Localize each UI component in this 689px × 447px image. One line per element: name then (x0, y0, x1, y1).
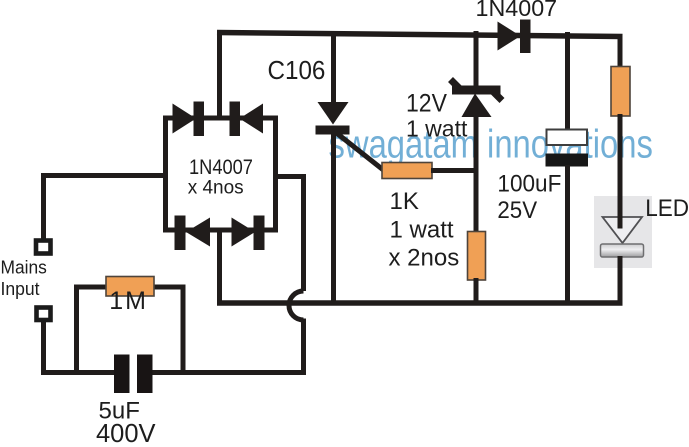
diode D1 1N4007 triangle (498, 22, 521, 51)
wire 1K to zener node (431, 168, 478, 173)
capacitor C2 100uF bottom plate (546, 154, 589, 167)
resistor R2 1K vertical (468, 232, 486, 281)
wire hop bottom to cap right plate (152, 319, 304, 373)
wire zener anode down (474, 116, 479, 233)
wire right corner down to R3 (618, 34, 623, 68)
svg-text:25V: 25V (497, 196, 537, 223)
LED triangle (603, 217, 643, 243)
wire bridge bottom stem (217, 229, 222, 305)
wire DC+ top rail (217, 33, 623, 37)
resistor R4 1M horizontal (106, 277, 154, 297)
mains terminal bottom (37, 308, 51, 321)
thyristor C106 triangle (318, 102, 349, 125)
svg-text:12V: 12V (406, 90, 447, 118)
bridge diode top-right (230, 102, 264, 137)
svg-text:1 watt: 1 watt (406, 116, 468, 142)
resistor R3 vertical (611, 67, 630, 117)
bridge diode bottom-right (232, 216, 265, 251)
wire AC right: bridge to hop (273, 177, 304, 292)
svg-text:x 4nos: x 4nos (188, 178, 244, 199)
zener diode 12V cathode bar (451, 80, 503, 101)
wire 1M loop right (153, 287, 183, 375)
capacitor C1 5uF right plate (137, 355, 153, 394)
wire DC- bottom rail (217, 300, 623, 306)
svg-text:400V: 400V (96, 420, 156, 447)
bridge rectifier box (166, 118, 276, 230)
svg-text:C106: C106 (268, 56, 326, 85)
capacitor C2 100uF top plate (547, 130, 588, 146)
wire zener stem (474, 31, 479, 88)
mains terminal top (36, 241, 51, 254)
LED cathode bar (601, 244, 644, 257)
wire R3 to LED (618, 114, 623, 196)
wire mains bottom terminal to cap left plate (44, 318, 117, 373)
wire C106 cathode down (331, 134, 336, 305)
svg-text:100uF: 100uF (497, 170, 561, 197)
svg-text:1N4007: 1N4007 (189, 156, 253, 179)
wire LED down to rail (618, 196, 623, 305)
wire hop over DC- rail (289, 291, 304, 320)
svg-text:1M: 1M (109, 287, 148, 315)
LED highlight box (594, 196, 652, 268)
zener diode 12V triangle (462, 94, 492, 118)
svg-text:1N4007: 1N4007 (476, 0, 558, 21)
svg-text:1 watt: 1 watt (390, 217, 454, 244)
wire bridge top stem (217, 31, 222, 120)
svg-text:Mains: Mains (1, 257, 47, 278)
wire C106 gate diagonal (337, 133, 385, 171)
diode D1 1N4007 bar (520, 20, 531, 54)
svg-text:x 2nos: x 2nos (389, 245, 460, 272)
wire filter cap stem (565, 32, 570, 131)
wire R2 down to rail (474, 278, 479, 305)
svg-text:LED: LED (645, 194, 689, 221)
capacitor C1 5uF left plate (114, 355, 130, 394)
svg-text:1K: 1K (390, 188, 419, 215)
bridge diode bottom-left (175, 216, 211, 251)
svg-text:Input: Input (1, 278, 40, 299)
wire cap down to rail (565, 165, 570, 305)
thyristor C106 cathode bar (316, 126, 350, 135)
wire C106 anode stem (331, 31, 336, 103)
wire 1M loop left (77, 287, 108, 375)
svg-text:swagatam innovations: swagatam innovations (329, 121, 653, 166)
wire AC left: mains top terminal to bridge (44, 176, 169, 242)
bridge diode top-left (173, 102, 205, 137)
resistor R1 1K horizontal (382, 163, 432, 179)
